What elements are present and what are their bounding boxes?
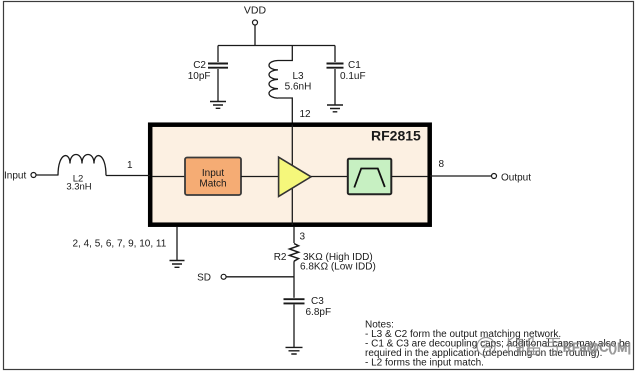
wire pin 3 to R2	[293, 227, 295, 243]
svg-text:1: 1	[127, 160, 133, 171]
notes text	[365, 320, 631, 369]
svg-text:C1: C1	[348, 60, 361, 71]
watermark	[477, 337, 562, 356]
svg-text:3.3nH: 3.3nH	[66, 182, 91, 193]
wire grounded pins stub	[176, 227, 178, 260]
svg-text:- L2 forms the input match.: - L2 forms the input match.	[365, 358, 484, 369]
wire pin 12 into amplifier	[291, 125, 293, 171]
svg-text:VDD: VDD	[244, 5, 267, 17]
resistor R2	[274, 244, 376, 273]
amplifier (triangle)	[279, 157, 311, 196]
svg-text:RF2815: RF2815	[371, 128, 421, 144]
inductor L2	[58, 155, 106, 193]
wire amplifier to pin 3	[291, 185, 293, 225]
svg-text:C3: C3	[311, 296, 324, 307]
wire amplifier to filter	[311, 176, 348, 178]
svg-text:0.1uF: 0.1uF	[340, 71, 366, 82]
svg-text:Input: Input	[202, 168, 224, 179]
svg-text:SD: SD	[197, 273, 211, 284]
svg-text:6.8pF: 6.8pF	[306, 307, 332, 318]
ground (C1)	[327, 105, 343, 112]
svg-text:RFa@C()M|: RFa@C()M|	[563, 341, 631, 355]
capacitor C1	[327, 46, 366, 105]
ground (C2)	[210, 102, 226, 109]
ground (C3)	[286, 347, 303, 354]
svg-text:Match: Match	[199, 179, 226, 190]
wire pin 1 to input match	[152, 176, 185, 178]
wire input match to amplifier	[241, 176, 278, 178]
svg-text:C2: C2	[193, 60, 206, 71]
svg-text:R2: R2	[274, 252, 287, 263]
svg-text:2, 4, 5, 6, 7, 9, 10, 11: 2, 4, 5, 6, 7, 9, 10, 11	[73, 239, 167, 250]
filter block (bandpass)	[348, 159, 392, 195]
wire SD to pin 3 net	[226, 276, 294, 278]
svg-text:L3: L3	[292, 71, 304, 82]
wire supply rail	[218, 45, 335, 47]
wire R2 to C3	[293, 261, 295, 298]
svg-text:3: 3	[300, 232, 306, 243]
ground (pins 2,4,5,6,7,9,10,11)	[170, 261, 185, 268]
svg-text:6.8KΩ (Low IDD): 6.8KΩ (Low IDD)	[300, 262, 376, 273]
wire VDD to rail	[254, 25, 256, 45]
node Output	[492, 173, 532, 184]
wire filter to pin 8	[391, 176, 428, 178]
input match block	[185, 158, 241, 196]
svg-text:5.6nH: 5.6nH	[285, 82, 312, 93]
capacitor C3	[284, 296, 332, 347]
svg-text:12: 12	[300, 109, 312, 120]
capacitor C2	[188, 46, 228, 102]
op-amp U1 RF2815 package outline	[150, 125, 430, 225]
node Input	[4, 171, 36, 182]
svg-text:8: 8	[439, 159, 445, 170]
inductor L3	[269, 46, 311, 123]
node SD	[197, 273, 226, 284]
svg-text:10pF: 10pF	[188, 71, 211, 82]
node VDD	[244, 5, 267, 26]
wire input to L2	[36, 174, 58, 176]
wire pin 8 to output	[430, 175, 491, 177]
wire L2 to pin 1	[106, 175, 150, 177]
svg-text:Output: Output	[501, 173, 531, 184]
svg-text:Input: Input	[4, 171, 26, 182]
